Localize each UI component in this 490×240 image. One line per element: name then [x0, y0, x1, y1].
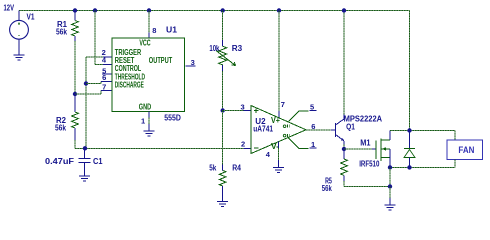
wire fan return: [390, 166, 455, 168]
label M1: [360, 139, 371, 148]
svg-text:5: 5: [310, 102, 314, 111]
label OUTPUT: [149, 56, 173, 65]
label DISCHARGE: [115, 81, 144, 90]
label 56k (R1): [56, 28, 67, 37]
node op pin7 top: [277, 8, 281, 12]
wire R5 to M1 source: [344, 186, 390, 188]
wire trigger-threshold column: [86, 57, 112, 148]
svg-text:V+: V+: [271, 116, 280, 125]
label TRIGGER: [115, 48, 142, 57]
node Q1 emitter: [342, 147, 346, 151]
svg-text:12V: 12V: [4, 4, 15, 13]
FAN box: [447, 140, 483, 160]
MOSFET M1: [376, 131, 390, 168]
wire pin 8: [148, 11, 150, 39]
pin number 7 (op): [281, 100, 285, 109]
wire Q1 emitter to M1 gate: [344, 148, 376, 150]
label R4: [232, 163, 241, 172]
svg-text:M1: M1: [360, 139, 371, 148]
variable resistor R3: [216, 11, 236, 111]
label RESET: [115, 56, 135, 65]
pin number 3 (555): [191, 58, 195, 67]
svg-text:OUTPUT: OUTPUT: [149, 56, 173, 65]
ground (R4): [217, 201, 228, 206]
label 555D: [164, 114, 181, 123]
wire op-amp pin 4: [278, 142, 280, 168]
ground (C1): [79, 176, 90, 181]
label R5: [325, 176, 332, 185]
svg-text:5k: 5k: [209, 163, 217, 172]
node reset column top: [93, 8, 97, 12]
svg-text:7: 7: [281, 100, 285, 109]
svg-text:GND: GND: [139, 102, 152, 111]
svg-text:VCC: VCC: [139, 38, 151, 47]
label V+: [271, 116, 280, 125]
wire FAN bottom drop: [454, 160, 456, 168]
svg-text:R3: R3: [232, 44, 243, 53]
op-amp U2 body: [251, 106, 306, 154]
label 0.47uF: [45, 157, 74, 166]
resistor R2: [72, 94, 79, 148]
svg-text:7: 7: [102, 83, 106, 92]
svg-text:1: 1: [311, 140, 315, 149]
op-amp offset null symbol upper: [283, 125, 289, 128]
wire pin 1 gnd: [148, 112, 150, 132]
svg-text:8: 8: [152, 26, 156, 35]
pin 1 line (offset): [289, 138, 317, 148]
wire top rail right drop: [409, 11, 411, 131]
wire divider to op-amp +: [223, 110, 251, 112]
pin number 1 (555): [141, 117, 145, 126]
wire FAN top drop: [454, 131, 456, 141]
svg-text:3: 3: [241, 102, 245, 111]
label 12V: [4, 4, 15, 13]
label V-: [271, 142, 279, 151]
ground (op-amp): [273, 168, 284, 173]
svg-text:6: 6: [102, 73, 106, 82]
label VCC: [139, 38, 151, 47]
ground (V1): [14, 55, 25, 60]
transistor Q1: [336, 115, 345, 145]
label 56k (R2): [55, 124, 66, 133]
node junction R1 top: [73, 8, 77, 12]
node Q1 collector top: [342, 8, 346, 12]
node R5-M1 gnd junction: [388, 184, 392, 188]
svg-text:56k: 56k: [55, 124, 66, 133]
pin 3 stub (OUTPUT): [186, 65, 196, 67]
node diode anode junction: [407, 165, 411, 169]
wire op-amp pin 7: [278, 11, 280, 118]
label R3: [232, 44, 243, 53]
pin number 8: [152, 26, 156, 35]
pin 5 line (offset): [289, 110, 317, 121]
wire VCC top rail: [19, 10, 410, 12]
resistor R5: [341, 149, 348, 187]
svg-text:56k: 56k: [322, 184, 332, 193]
wire M1 source down: [389, 167, 391, 186]
svg-text:U1: U1: [166, 26, 178, 35]
label 56k (R5): [322, 184, 332, 193]
label C1: [93, 157, 103, 166]
diode D1: [404, 131, 415, 168]
resistor R1: [72, 11, 79, 95]
node A (R1-R2-pin7 junction): [73, 92, 77, 96]
wire pin 6 link: [86, 81, 112, 83]
svg-text:56k: 56k: [56, 28, 67, 37]
voltage source V1: [10, 11, 29, 56]
wire op output to Q1 base: [306, 129, 336, 131]
op-amp offset null symbol lower: [283, 134, 289, 137]
label FAN: [458, 145, 474, 155]
op-amp + input mark: [254, 108, 258, 112]
svg-text:10k: 10k: [209, 44, 219, 53]
node R3 top: [221, 8, 225, 12]
label V1: [27, 13, 35, 22]
pin number 1 (op): [311, 140, 315, 149]
pin number 3 (op): [241, 102, 245, 111]
svg-text:Q1: Q1: [346, 122, 355, 131]
label U2: [255, 117, 266, 126]
wire to main ground: [389, 187, 391, 206]
node pin6 junction: [84, 81, 88, 85]
svg-text:0.47uF: 0.47uF: [45, 157, 74, 166]
resistor R4: [219, 111, 226, 202]
node diode top: [407, 128, 411, 132]
svg-text:FAN: FAN: [458, 145, 474, 155]
wire M1 drain to FAN: [390, 130, 455, 132]
svg-text:DISCHARGE: DISCHARGE: [115, 81, 144, 90]
pin 5 stub (CONTROL): [102, 73, 112, 75]
svg-text:2: 2: [241, 139, 245, 148]
svg-text:uA741: uA741: [253, 124, 273, 133]
pin number 6: [102, 73, 106, 82]
wire C1 net to op-amp -: [86, 147, 251, 149]
pin number 5 (op): [310, 102, 314, 111]
op-amp - input mark: [254, 147, 258, 149]
pin number 2: [102, 48, 106, 57]
pin number 6 (op): [311, 122, 315, 131]
label MPS2222A: [344, 114, 383, 123]
ground (555 pin1): [144, 131, 155, 136]
pin number 4: [102, 55, 107, 64]
node M1 source junction: [388, 165, 392, 169]
capacitor C1: [79, 148, 91, 176]
svg-text:C1: C1: [93, 157, 103, 166]
label CONTROL: [115, 64, 142, 73]
pin number 5: [102, 67, 106, 76]
label R1: [57, 20, 68, 29]
label IRF510: [359, 159, 380, 168]
svg-text:V1: V1: [27, 13, 35, 22]
pin number 7: [102, 83, 106, 92]
svg-text:R4: R4: [232, 163, 241, 172]
svg-text:1: 1: [141, 117, 145, 126]
label uA741: [253, 124, 273, 133]
label R2: [56, 116, 67, 125]
label 10k: [209, 44, 219, 53]
svg-text:555D: 555D: [164, 114, 181, 123]
node B (R3-R4 divider): [221, 108, 225, 112]
label GND: [139, 102, 152, 111]
wire reset column: [95, 11, 112, 65]
pin number 2 (op): [241, 139, 245, 148]
IC U1 555 body: [112, 38, 185, 112]
pin number 4 (op): [266, 150, 271, 159]
ground (main right): [385, 205, 396, 210]
wire R2 bottom jog: [75, 147, 86, 149]
label Q1: [346, 122, 355, 131]
label 5k: [209, 163, 217, 172]
node C1 top: [83, 146, 87, 150]
label THRESHOLD: [115, 72, 145, 81]
wire Q1 collector: [343, 11, 345, 115]
wire node A to pin 7: [75, 91, 112, 95]
wire Q1 emitter: [343, 145, 345, 150]
svg-text:IRF510: IRF510: [359, 159, 380, 168]
node pin8 top: [147, 8, 151, 12]
svg-text:4: 4: [266, 150, 271, 159]
label U1: [166, 26, 178, 35]
